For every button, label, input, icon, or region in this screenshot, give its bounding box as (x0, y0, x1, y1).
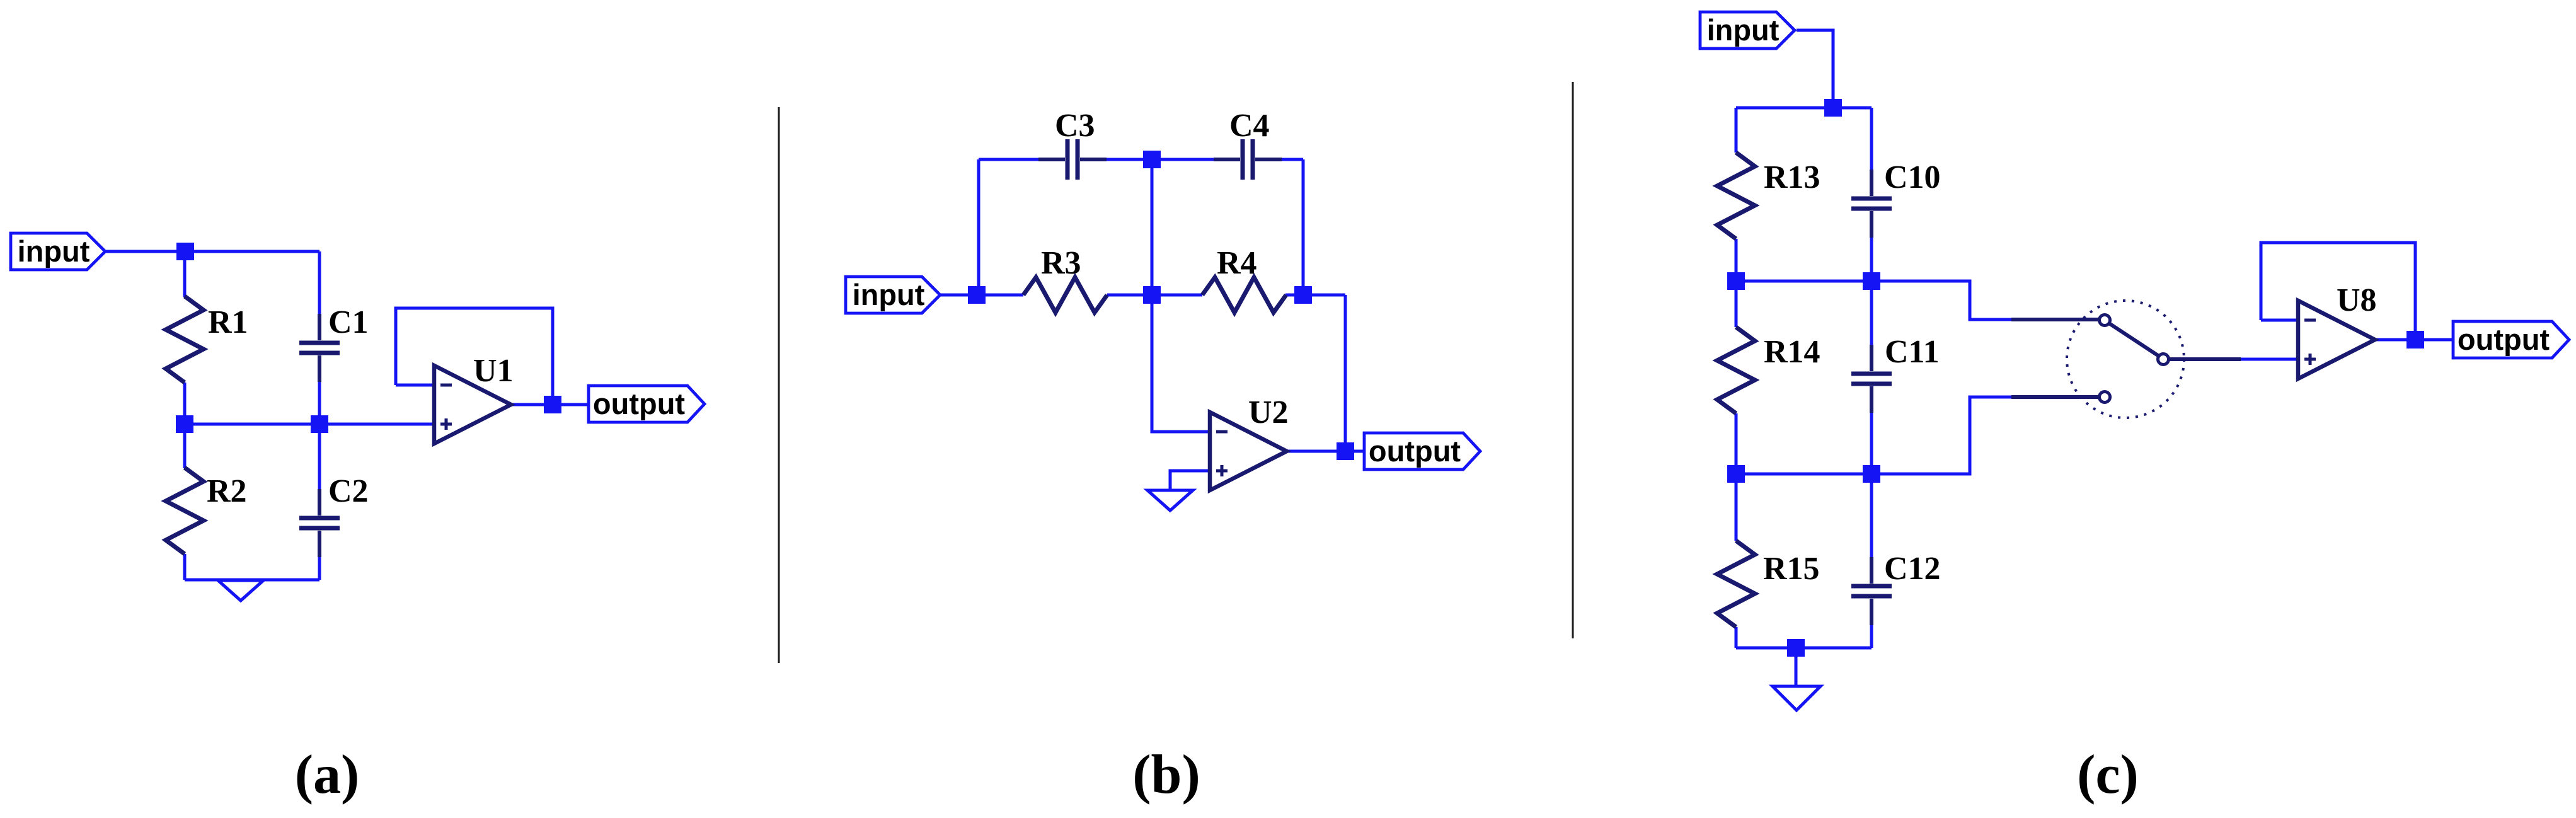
svg-text:R3: R3 (1041, 245, 1081, 281)
svg-text:(a): (a) (295, 744, 360, 805)
svg-text:C3: C3 (1055, 108, 1095, 144)
svg-text:R13: R13 (1764, 159, 1820, 195)
svg-text:R1: R1 (208, 304, 248, 340)
svg-text:R2: R2 (207, 473, 247, 509)
svg-text:C4: C4 (1229, 108, 1270, 144)
svg-text:R14: R14 (1764, 334, 1820, 370)
svg-text:C2: C2 (328, 473, 369, 509)
svg-text:C11: C11 (1885, 334, 1940, 370)
svg-text:(c): (c) (2077, 744, 2139, 805)
svg-text:R15: R15 (1763, 551, 1820, 587)
svg-text:C1: C1 (328, 304, 369, 340)
svg-text:C10: C10 (1884, 159, 1941, 195)
svg-text:C12: C12 (1884, 551, 1941, 587)
svg-text:(b): (b) (1132, 744, 1200, 805)
svg-text:R4: R4 (1217, 245, 1257, 281)
svg-text:U1: U1 (473, 353, 514, 389)
svg-text:U8: U8 (2337, 282, 2377, 318)
svg-text:U2: U2 (1248, 395, 1289, 430)
